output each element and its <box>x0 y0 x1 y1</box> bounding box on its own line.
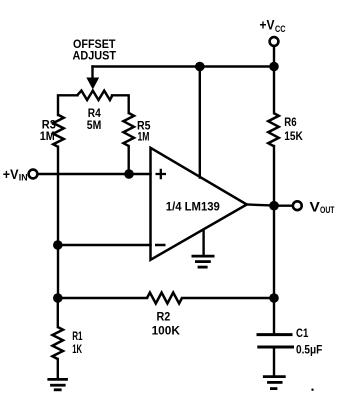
node +Vin label <box>3 166 28 183</box>
svg-text:R1: R1 <box>72 329 83 343</box>
junction left vertical / inverting wire <box>53 240 63 250</box>
ground op-amp <box>192 256 215 267</box>
wire right rail upper (Vcc to R6) <box>273 67 275 114</box>
label OFFSET ADJUST <box>73 37 117 62</box>
svg-text:OUT: OUT <box>320 205 335 215</box>
wire to R1 <box>57 298 59 327</box>
resistor R3 body <box>53 115 64 147</box>
label R5 1M <box>137 118 151 143</box>
wire C1 top lead <box>273 298 275 333</box>
junction output node <box>269 201 279 211</box>
label C1 0.5uF <box>296 326 322 356</box>
svg-text:ADJUST: ADJUST <box>73 49 117 63</box>
junction top rail / +Vcc <box>269 62 279 72</box>
junction bottom rail right / C1 <box>269 293 279 303</box>
svg-text:100K: 100K <box>152 324 181 338</box>
svg-text:1M: 1M <box>40 129 55 143</box>
svg-text:V: V <box>310 199 321 215</box>
wire R4 right lead <box>112 95 129 113</box>
wire op-amp supply <box>199 67 201 178</box>
potentiometer wiper arrow <box>87 78 99 89</box>
potentiometer R4 body <box>77 91 112 100</box>
wire bottom rail right <box>182 297 274 299</box>
junction top rail / op-amp supply <box>195 62 205 72</box>
wire op-amp ground pin <box>202 230 204 256</box>
resistor R1 body <box>52 327 63 359</box>
wire wiper stem <box>91 67 93 80</box>
svg-text:IN: IN <box>19 172 28 182</box>
resistor R6 body <box>268 113 279 146</box>
label R1 1K <box>72 329 83 356</box>
terminal +Vin open circle <box>29 170 38 179</box>
svg-text:CC: CC <box>275 24 286 34</box>
node Vout label <box>310 199 335 216</box>
svg-text:5M: 5M <box>87 118 102 132</box>
svg-text:1/4 LM139: 1/4 LM139 <box>166 200 220 214</box>
svg-text:0.5μF: 0.5μF <box>296 342 322 356</box>
label R6 15K <box>284 115 303 143</box>
wire to inverting input <box>58 244 151 246</box>
wire right rail lower (output to C1 node) <box>273 206 275 298</box>
terminal Vout open circle <box>293 201 302 210</box>
wire output <box>247 205 274 206</box>
svg-text:R2: R2 <box>157 310 171 324</box>
ground C1 <box>263 377 286 389</box>
label R4 5M <box>87 106 102 132</box>
svg-text:1M: 1M <box>138 129 150 143</box>
label R2 100K <box>152 310 181 338</box>
speck artifact <box>311 389 313 391</box>
op-amp minus input symbol <box>155 244 166 247</box>
wire R4 left lead <box>58 95 78 115</box>
ground R1 <box>47 379 68 389</box>
svg-text:C1: C1 <box>296 326 309 340</box>
terminal +Vcc open circle <box>270 37 279 46</box>
wire C1 to ground <box>273 347 275 376</box>
junction R5 / +Vin wire <box>124 169 134 179</box>
svg-text:+V: +V <box>260 17 276 33</box>
op-amp plus input symbol <box>156 169 167 179</box>
wire +Vcc stub <box>273 47 275 67</box>
wire +Vin to noninverting input <box>38 173 150 175</box>
wire R1 to ground <box>57 359 59 379</box>
wire bottom rail left <box>58 297 147 299</box>
resistor R2 body <box>147 293 182 304</box>
node +Vcc label <box>260 17 286 35</box>
op-amp U1 triangle <box>151 148 247 260</box>
label R3 1M <box>40 118 56 143</box>
wire R6 to output node <box>273 146 275 206</box>
wire R5 bottom lead <box>127 146 129 174</box>
svg-text:+V: +V <box>3 166 19 182</box>
wire top rail <box>93 65 275 67</box>
svg-text:1K: 1K <box>72 342 82 356</box>
capacitor C1 plates <box>257 335 295 347</box>
svg-text:R6: R6 <box>284 115 297 129</box>
wire output to Vout terminal <box>274 204 292 206</box>
svg-text:15K: 15K <box>284 129 303 143</box>
resistor R5 body <box>123 113 134 146</box>
wire R3 bottom / left vertical <box>57 147 59 298</box>
junction bottom rail left <box>53 293 63 303</box>
